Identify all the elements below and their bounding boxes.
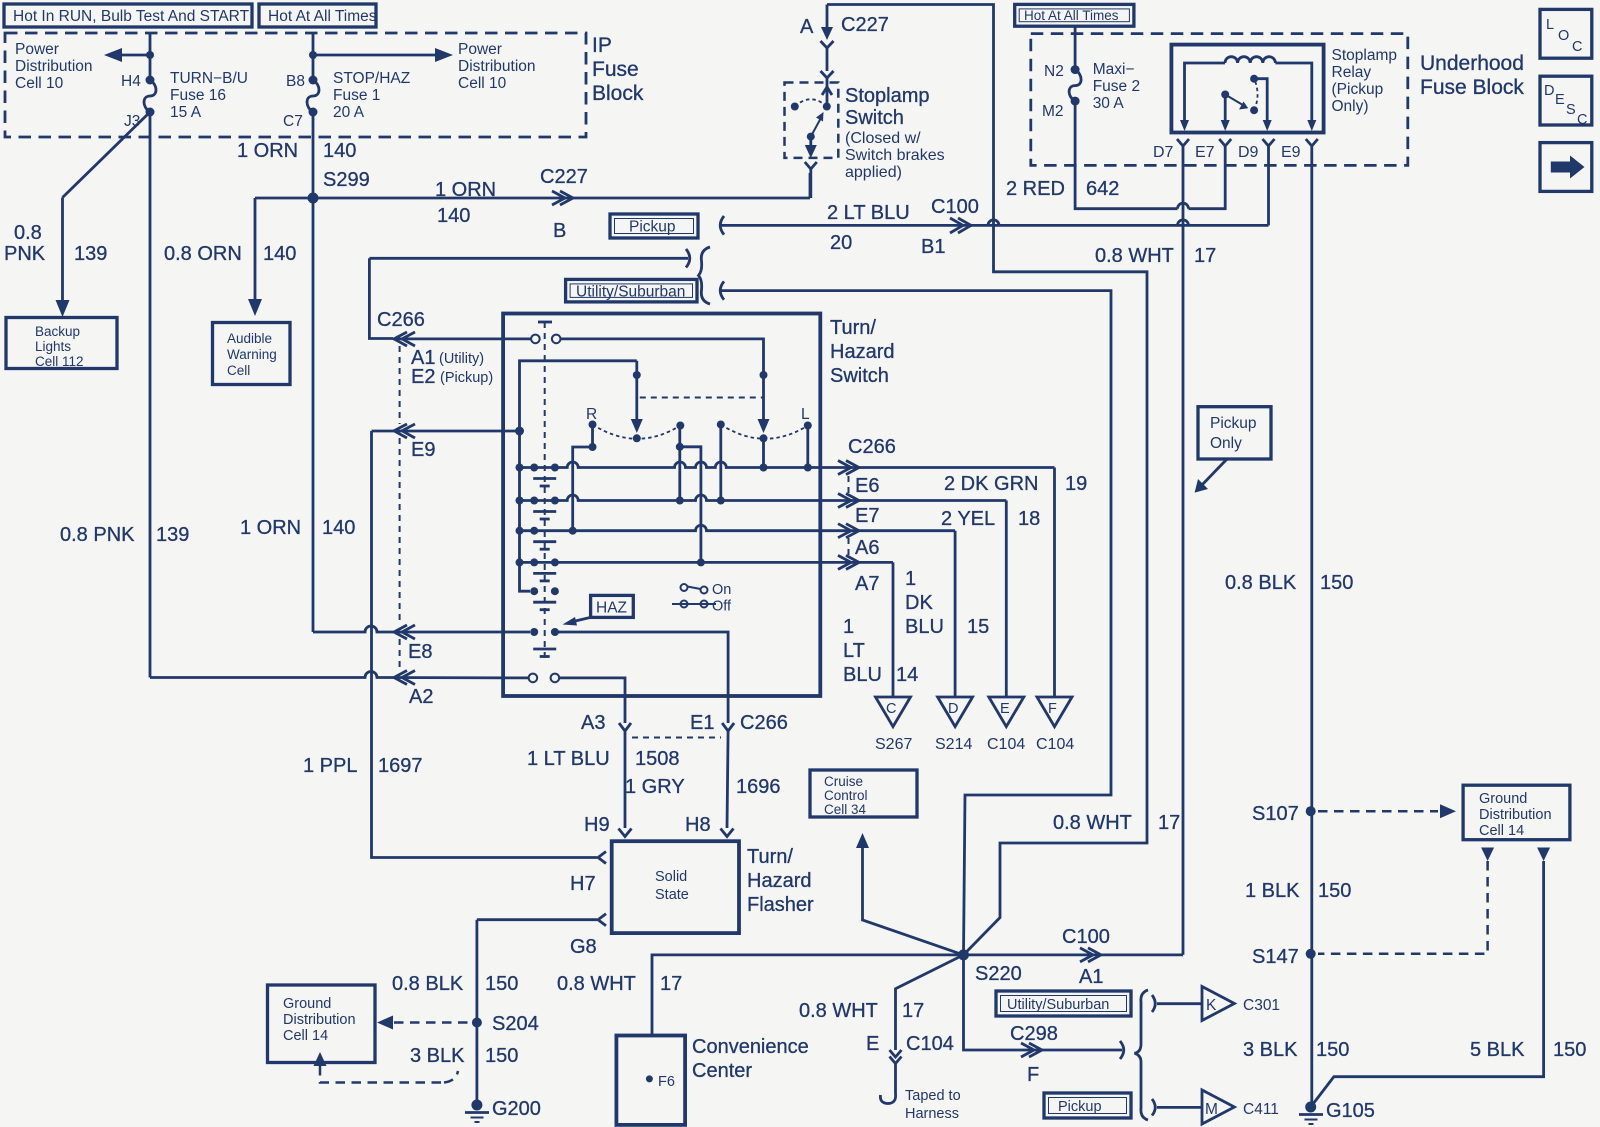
svg-text:C298: C298 [1010, 1023, 1058, 1045]
svg-text:LT: LT [843, 640, 865, 662]
svg-text:S204: S204 [492, 1013, 539, 1035]
svg-text:C100: C100 [1062, 926, 1110, 948]
svg-text:Switch: Switch [845, 107, 904, 129]
svg-text:0.8 BLK: 0.8 BLK [1225, 572, 1297, 594]
svg-text:0.8 WHT: 0.8 WHT [799, 1000, 878, 1022]
svg-text:R: R [586, 406, 597, 423]
svg-text:Fuse: Fuse [592, 58, 639, 81]
svg-text:Cell: Cell [227, 363, 250, 378]
svg-text:150: 150 [1318, 880, 1351, 902]
svg-text:BLU: BLU [905, 616, 944, 638]
svg-text:642: 642 [1086, 178, 1119, 200]
svg-text:0.8 WHT: 0.8 WHT [1053, 812, 1132, 834]
svg-text:Center: Center [692, 1060, 752, 1082]
svg-text:K: K [1206, 997, 1217, 1014]
svg-text:1696: 1696 [736, 776, 781, 798]
svg-text:E7: E7 [1195, 144, 1215, 161]
svg-text:C301: C301 [1243, 997, 1280, 1014]
svg-text:Underhood: Underhood [1420, 52, 1524, 75]
svg-text:Flasher: Flasher [747, 894, 814, 916]
svg-text:Warning: Warning [227, 347, 277, 362]
svg-text:Fuse 1: Fuse 1 [333, 87, 380, 104]
svg-text:E: E [866, 1033, 879, 1055]
svg-text:Ground: Ground [283, 996, 331, 1012]
svg-text:Cruise: Cruise [824, 774, 863, 789]
svg-text:1 BLK: 1 BLK [1245, 880, 1300, 902]
svg-text:Relay: Relay [1332, 64, 1372, 81]
svg-text:S107: S107 [1252, 803, 1299, 825]
svg-text:1697: 1697 [378, 755, 423, 777]
svg-text:E7: E7 [855, 505, 879, 527]
svg-text:140: 140 [323, 140, 356, 162]
svg-text:S220: S220 [975, 963, 1022, 985]
svg-text:C266: C266 [848, 436, 896, 458]
svg-text:Cell 10: Cell 10 [15, 75, 64, 92]
svg-text:Hot In RUN, Bulb Test And STAR: Hot In RUN, Bulb Test And START [13, 8, 250, 25]
svg-text:1: 1 [905, 568, 916, 590]
svg-text:S147: S147 [1252, 946, 1299, 968]
svg-text:0.8 PNK: 0.8 PNK [60, 524, 135, 546]
svg-text:Lights: Lights [35, 339, 71, 354]
svg-text:0.8 ORN: 0.8 ORN [164, 243, 242, 265]
svg-text:Fuse 2: Fuse 2 [1093, 78, 1140, 95]
svg-text:Distribution: Distribution [458, 58, 536, 75]
svg-text:IP: IP [592, 34, 612, 57]
svg-text:E9: E9 [1281, 144, 1301, 161]
svg-text:PNK: PNK [4, 243, 46, 265]
svg-text:C7: C7 [283, 113, 303, 130]
svg-text:N2: N2 [1044, 63, 1064, 80]
svg-text:E9: E9 [411, 439, 435, 461]
svg-text:140: 140 [263, 243, 296, 265]
svg-text:D7: D7 [1153, 144, 1174, 161]
svg-text:15 A: 15 A [170, 104, 202, 121]
svg-text:Cell 14: Cell 14 [283, 1028, 328, 1044]
svg-text:E: E [1000, 701, 1010, 717]
svg-text:H7: H7 [570, 873, 596, 895]
svg-text:BLU: BLU [843, 664, 882, 686]
svg-text:30 A: 30 A [1093, 95, 1125, 112]
svg-text:A7: A7 [855, 573, 879, 595]
svg-text:1 GRY: 1 GRY [625, 776, 685, 798]
svg-text:1508: 1508 [635, 748, 680, 770]
svg-text:20 A: 20 A [333, 104, 365, 121]
svg-text:L: L [801, 406, 810, 423]
svg-text:C266: C266 [740, 712, 788, 734]
svg-text:1 ORN: 1 ORN [237, 140, 298, 162]
svg-text:1 LT BLU: 1 LT BLU [527, 748, 610, 770]
svg-text:H4: H4 [121, 73, 141, 90]
svg-text:Distribution: Distribution [283, 1012, 356, 1028]
svg-text:A2: A2 [409, 686, 433, 708]
svg-text:E8: E8 [408, 641, 432, 663]
svg-text:150: 150 [1316, 1039, 1349, 1061]
svg-text:0.8 WHT: 0.8 WHT [1095, 245, 1174, 267]
svg-text:2 DK GRN: 2 DK GRN [944, 473, 1038, 495]
svg-text:C104: C104 [987, 736, 1025, 753]
svg-text:O: O [1558, 28, 1569, 44]
svg-text:F: F [1027, 1064, 1039, 1086]
svg-text:STOP/HAZ: STOP/HAZ [333, 70, 410, 87]
svg-text:3 BLK: 3 BLK [410, 1045, 465, 1067]
svg-text:Utility/Suburban: Utility/Suburban [576, 284, 685, 301]
svg-text:G8: G8 [570, 936, 597, 958]
svg-text:20: 20 [830, 232, 852, 254]
svg-text:Off: Off [712, 599, 732, 615]
svg-text:140: 140 [437, 205, 470, 227]
svg-text:139: 139 [74, 243, 107, 265]
svg-text:Hot At All Times: Hot At All Times [268, 8, 377, 25]
svg-text:Harness: Harness [905, 1106, 959, 1122]
svg-text:5 BLK: 5 BLK [1470, 1039, 1525, 1061]
svg-text:C100: C100 [931, 196, 979, 218]
svg-text:Solid: Solid [655, 869, 687, 885]
svg-text:Only): Only) [1332, 98, 1369, 115]
svg-text:State: State [655, 887, 689, 903]
svg-text:Cell 112: Cell 112 [35, 354, 84, 369]
svg-text:17: 17 [1158, 812, 1180, 834]
svg-text:Cell 34: Cell 34 [824, 802, 867, 817]
svg-text:C411: C411 [1243, 1101, 1279, 1118]
svg-text:Only: Only [1210, 435, 1242, 452]
svg-text:Pickup: Pickup [1058, 1099, 1102, 1115]
svg-text:1 ORN: 1 ORN [240, 517, 301, 539]
svg-text:HAZ: HAZ [596, 600, 627, 617]
svg-text:F: F [1048, 701, 1057, 717]
svg-text:applied): applied) [845, 164, 902, 181]
svg-text:A: A [800, 16, 814, 38]
svg-text:Distribution: Distribution [1479, 807, 1552, 823]
svg-text:Turn/: Turn/ [747, 846, 793, 868]
svg-text:Audible: Audible [227, 331, 272, 346]
svg-text:(Pickup): (Pickup) [440, 370, 493, 386]
svg-text:Cell 10: Cell 10 [458, 75, 507, 92]
svg-text:Turn/: Turn/ [830, 317, 876, 339]
svg-text:(Pickup: (Pickup [1332, 81, 1384, 98]
svg-text:Fuse 16: Fuse 16 [170, 87, 226, 104]
svg-text:TURN−B/U: TURN−B/U [170, 70, 248, 87]
svg-text:H8: H8 [685, 814, 711, 836]
svg-text:Utility/Suburban: Utility/Suburban [1007, 997, 1109, 1013]
svg-text:H9: H9 [584, 814, 610, 836]
svg-text:2 YEL: 2 YEL [941, 508, 995, 530]
svg-text:C: C [886, 701, 896, 717]
svg-text:Maxi−: Maxi− [1093, 61, 1135, 78]
svg-text:0.8 WHT: 0.8 WHT [557, 973, 636, 995]
svg-text:150: 150 [1320, 572, 1353, 594]
svg-text:Convenience: Convenience [692, 1036, 809, 1058]
svg-text:C: C [1572, 39, 1582, 55]
svg-text:Pickup: Pickup [629, 219, 676, 236]
svg-text:Backup: Backup [35, 324, 80, 339]
svg-text:F6: F6 [658, 1074, 675, 1090]
svg-text:DK: DK [905, 592, 933, 614]
svg-text:3 BLK: 3 BLK [1243, 1039, 1298, 1061]
svg-text:S299: S299 [323, 169, 370, 191]
svg-text:G200: G200 [492, 1098, 541, 1120]
svg-text:C266: C266 [377, 309, 425, 331]
svg-text:Stoplamp: Stoplamp [845, 85, 930, 107]
svg-text:Hazard: Hazard [830, 341, 894, 363]
svg-text:Cell 14: Cell 14 [1479, 823, 1524, 839]
svg-text:B8: B8 [286, 73, 305, 90]
svg-text:2 LT BLU: 2 LT BLU [827, 202, 910, 224]
svg-text:C104: C104 [906, 1033, 954, 1055]
svg-text:Ground: Ground [1479, 791, 1527, 807]
svg-text:139: 139 [156, 524, 189, 546]
svg-text:C: C [1577, 112, 1587, 128]
svg-text:C104: C104 [1036, 736, 1074, 753]
svg-text:B1: B1 [921, 236, 945, 258]
svg-text:Pickup: Pickup [1210, 415, 1257, 432]
svg-text:Hot At All Times: Hot At All Times [1024, 8, 1119, 23]
svg-text:C227: C227 [841, 14, 889, 36]
svg-text:On: On [712, 582, 731, 598]
svg-text:17: 17 [1194, 245, 1216, 267]
svg-text:E1: E1 [690, 712, 714, 734]
svg-text:15: 15 [967, 616, 989, 638]
svg-text:17: 17 [660, 973, 682, 995]
svg-text:17: 17 [902, 1000, 924, 1022]
svg-text:(Closed w/: (Closed w/ [845, 130, 921, 147]
svg-text:18: 18 [1018, 508, 1040, 530]
svg-text:M2: M2 [1042, 103, 1064, 120]
svg-text:L: L [1546, 17, 1554, 33]
svg-text:Switch: Switch [830, 365, 889, 387]
svg-text:M: M [1205, 1101, 1218, 1118]
svg-text:Power: Power [15, 41, 59, 58]
svg-text:Power: Power [458, 41, 502, 58]
svg-text:Block: Block [592, 82, 644, 105]
svg-text:14: 14 [896, 664, 918, 686]
svg-text:1 ORN: 1 ORN [435, 179, 496, 201]
svg-text:Hazard: Hazard [747, 870, 811, 892]
svg-text:A1: A1 [1079, 966, 1103, 988]
svg-text:A3: A3 [581, 712, 605, 734]
svg-text:Control: Control [824, 788, 868, 803]
svg-text:A6: A6 [855, 537, 879, 559]
svg-text:1: 1 [843, 616, 854, 638]
svg-text:G105: G105 [1326, 1100, 1375, 1122]
svg-text:(Utility): (Utility) [439, 351, 484, 367]
svg-text:1 PPL: 1 PPL [303, 755, 357, 777]
svg-text:150: 150 [1553, 1039, 1586, 1061]
svg-text:2 RED: 2 RED [1006, 178, 1065, 200]
svg-text:Switch brakes: Switch brakes [845, 147, 945, 164]
svg-text:B: B [553, 220, 566, 242]
svg-text:S267: S267 [875, 736, 912, 753]
svg-text:E2: E2 [411, 366, 435, 388]
svg-text:Stoplamp: Stoplamp [1332, 47, 1397, 64]
svg-text:140: 140 [322, 517, 355, 539]
svg-text:0.8 BLK: 0.8 BLK [392, 973, 464, 995]
svg-text:E6: E6 [855, 475, 879, 497]
svg-text:150: 150 [485, 973, 518, 995]
svg-text:Fuse Block: Fuse Block [1420, 76, 1524, 99]
svg-text:D: D [948, 701, 958, 717]
svg-text:D: D [1544, 83, 1554, 99]
svg-text:S: S [1566, 102, 1576, 118]
svg-text:Taped to: Taped to [905, 1088, 961, 1104]
svg-text:Distribution: Distribution [15, 58, 93, 75]
svg-text:D9: D9 [1238, 144, 1259, 161]
svg-text:0.8: 0.8 [14, 222, 42, 244]
svg-text:150: 150 [485, 1045, 518, 1067]
svg-text:C227: C227 [540, 166, 588, 188]
svg-text:E: E [1555, 92, 1565, 108]
svg-text:S214: S214 [935, 736, 972, 753]
svg-text:19: 19 [1065, 473, 1087, 495]
